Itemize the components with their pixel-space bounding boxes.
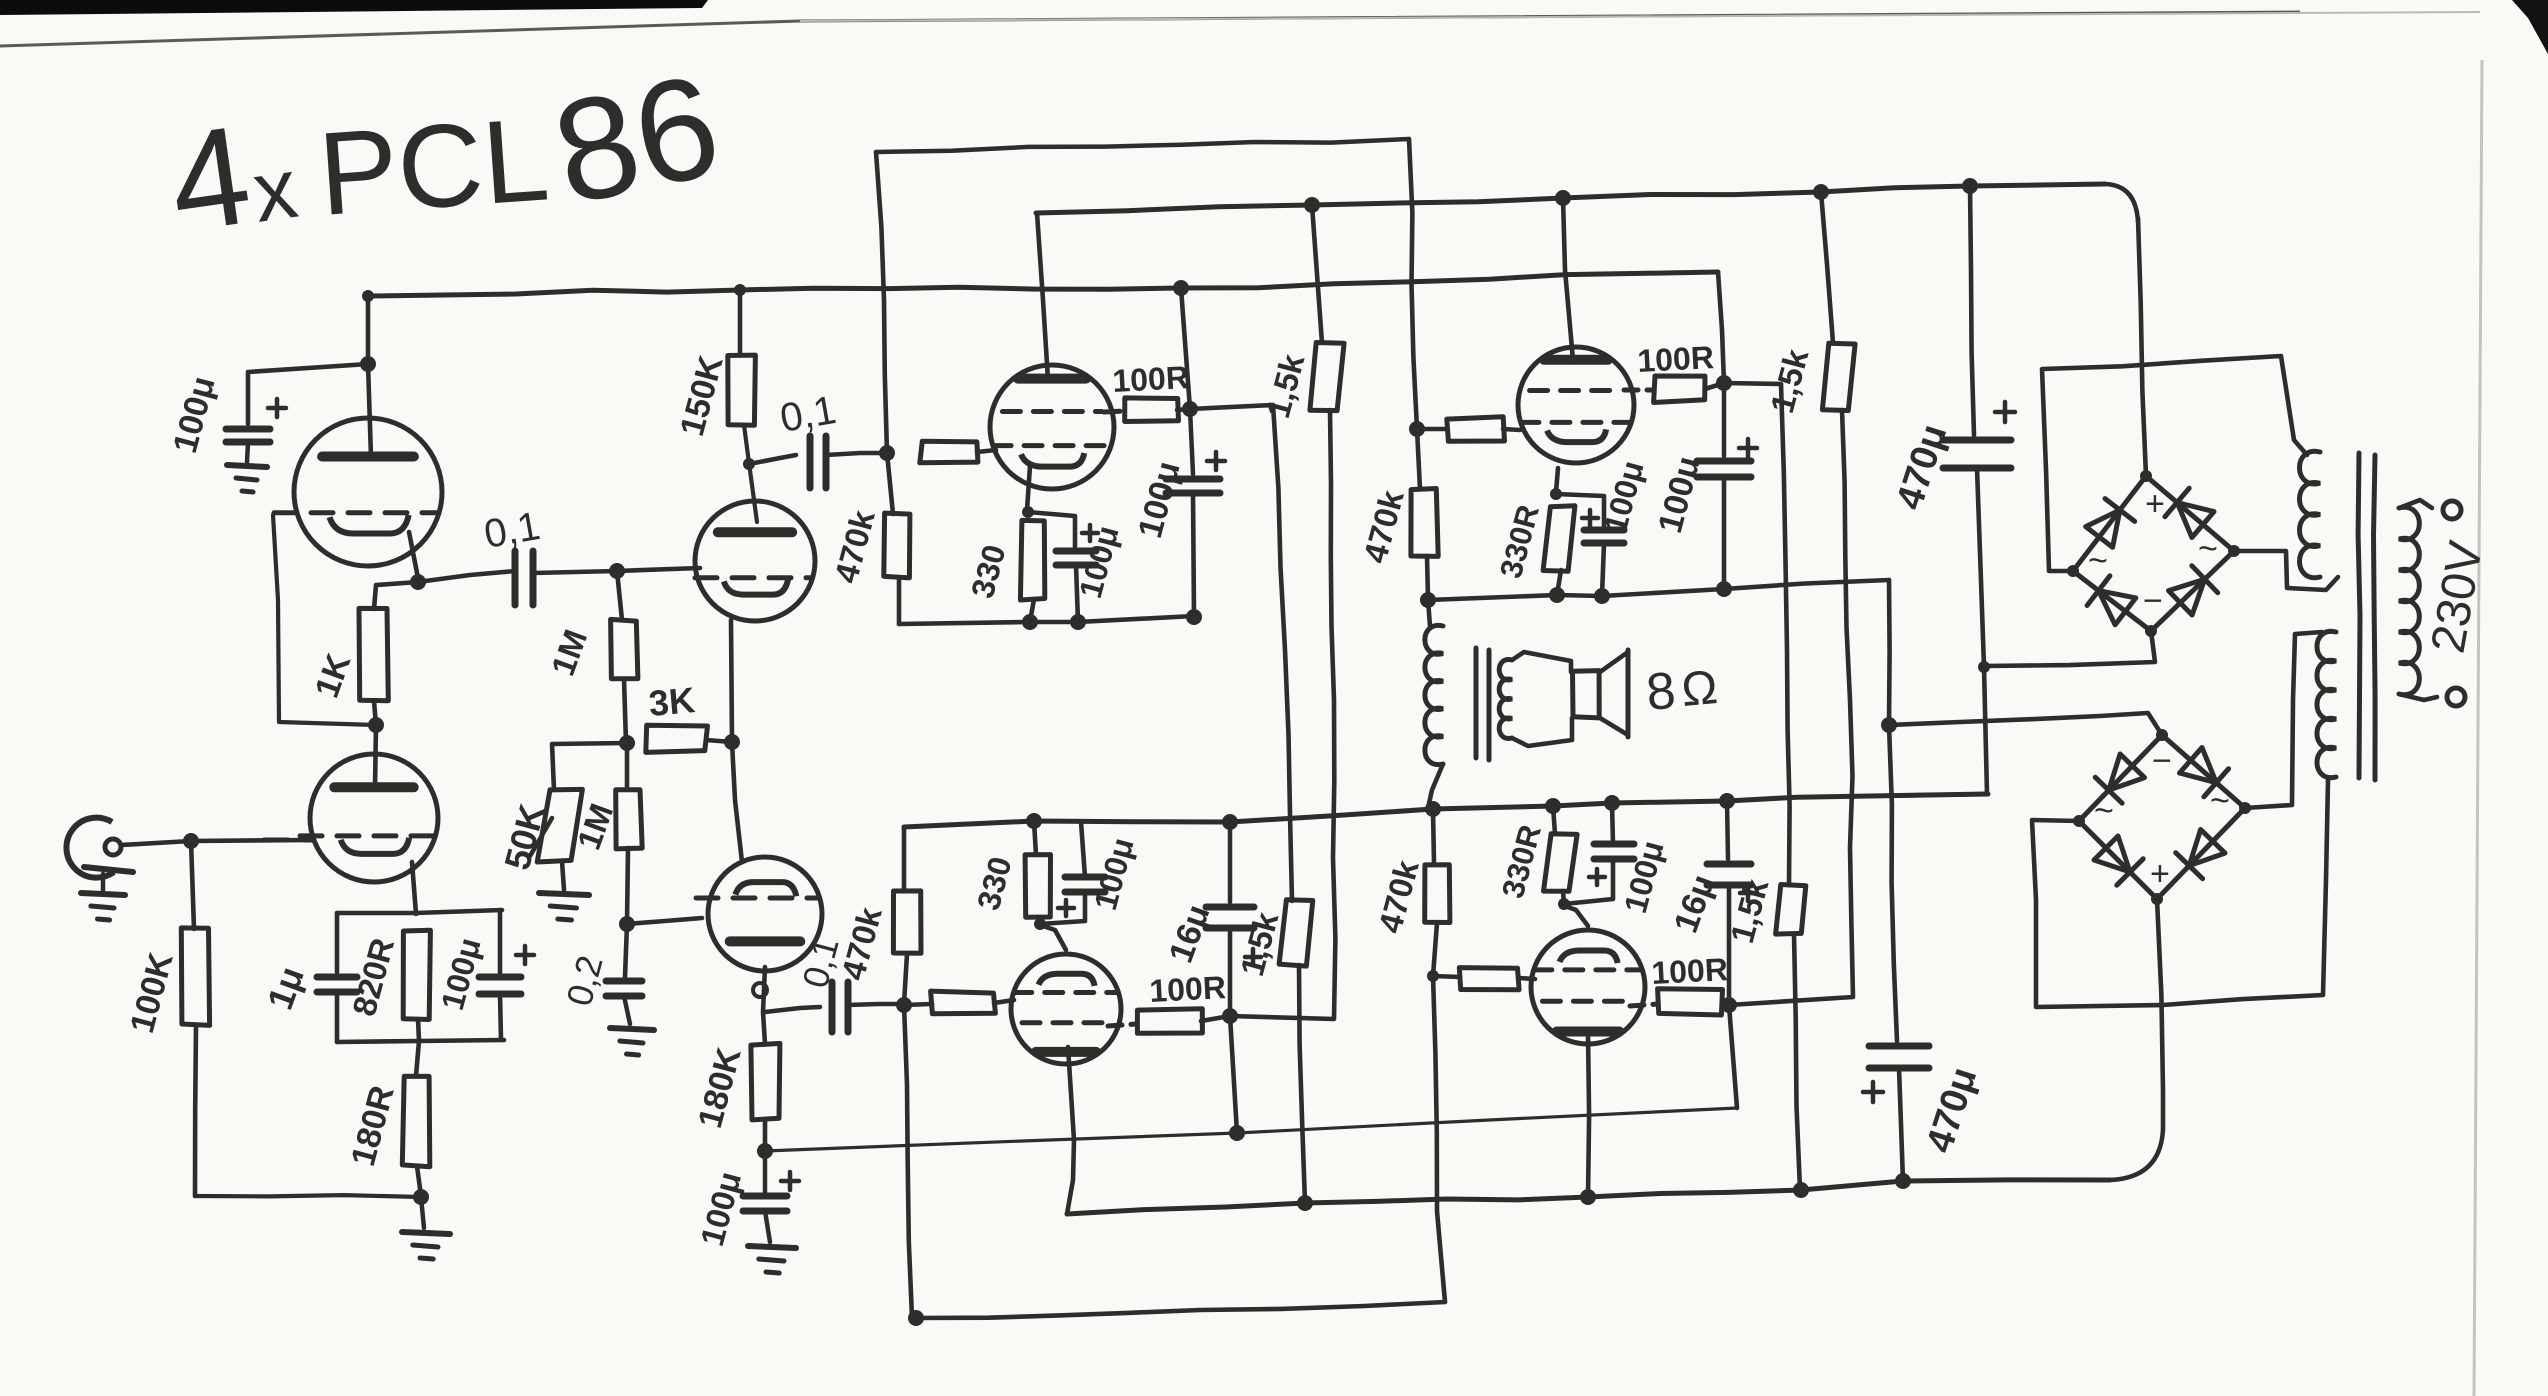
node cell2 rail dots <box>1549 581 1732 604</box>
resistor 1,5k second <box>1821 192 1855 411</box>
capacitor 100u cathode ll <box>1040 877 1105 924</box>
svg-text:100μ: 100μ <box>1597 457 1651 537</box>
resistor 820R <box>403 930 430 1019</box>
node NFB mid <box>1229 1125 1245 1141</box>
label 330R lr <box>1495 821 1548 902</box>
wire speaker bottom <box>1512 718 1572 746</box>
wire lower rail <box>904 794 1988 827</box>
wire 180R bottom <box>417 1166 421 1196</box>
svg-text:100μ: 100μ <box>1087 834 1141 914</box>
wire BR2 left chain <box>2032 780 2328 1007</box>
wire splitter rail bottom <box>904 1005 912 1318</box>
pentode V5 lower-left <box>1011 954 1121 1064</box>
node V3 cathode <box>1022 506 1034 518</box>
wire 470K lr bottom <box>1433 923 1437 976</box>
wire 330 ll bottom <box>1038 917 1040 924</box>
capacitor 100u screen ul <box>1166 409 1225 493</box>
capacitor 100u splitter <box>743 1151 799 1211</box>
wire V6 plate lead <box>1588 1033 1589 1197</box>
speaker 8ohm <box>1573 650 1629 737</box>
wire BR2 right chain <box>2245 632 2322 808</box>
ground splitter cap <box>748 1211 796 1273</box>
svg-text:470μ: 470μ <box>1919 1062 1986 1157</box>
svg-text:330R: 330R <box>1493 501 1546 582</box>
capacitor 16u lower-right <box>1707 801 1756 901</box>
wire 100K to bottom <box>195 1025 196 1196</box>
wire 3K right <box>706 740 732 742</box>
label 470u second <box>1919 1062 1986 1157</box>
title 4xPCL86 <box>160 43 732 261</box>
wire NFB line <box>765 1108 1737 1151</box>
label 100R lower-right <box>1650 951 1728 991</box>
svg-text:1μ: 1μ <box>259 961 312 1015</box>
node grid lr <box>1427 970 1439 982</box>
wire 100u ur to rail <box>1722 477 1727 589</box>
svg-text:PCL: PCL <box>315 93 553 241</box>
wire 470u1 to lower rail <box>1870 667 1987 796</box>
label 1K <box>308 648 359 702</box>
node splitter grid <box>619 916 635 932</box>
resistor 1M upper <box>611 619 638 678</box>
label 330R ur <box>1493 501 1546 582</box>
label 1M upper <box>544 625 594 681</box>
capacitor 100u input stage <box>226 399 286 442</box>
wire screen ll to NFB <box>1230 1016 1237 1133</box>
wire bias box top <box>337 910 502 913</box>
label 470K upper-left <box>827 506 882 587</box>
svg-text:+: + <box>2145 485 2165 523</box>
resistor 100R lower-right <box>1630 989 1729 1015</box>
wire 16u lr down <box>1727 885 1732 1005</box>
node NFB left <box>757 1143 773 1159</box>
label 100u cathode ul <box>1072 522 1126 602</box>
label 8ohm <box>1644 661 1720 722</box>
svg-text:100K: 100K <box>123 948 181 1037</box>
ground 100u input <box>227 442 267 492</box>
resistor 100K <box>181 928 209 1026</box>
svg-text:−: − <box>2152 742 2172 780</box>
node V1a plate top <box>360 290 376 372</box>
node 3K left <box>619 735 635 751</box>
wire upper gnd drop <box>1887 580 1892 725</box>
resistor 330 ll <box>1025 821 1050 917</box>
label 180R <box>344 1082 402 1170</box>
svg-text:Ω: Ω <box>1679 661 1719 717</box>
rectifier bridge BR2 <box>2073 729 2251 905</box>
grid stopper V5 <box>904 991 1014 1014</box>
wire V4 plate lead <box>1563 198 1573 360</box>
node OT1 top <box>1420 592 1436 608</box>
node lower rail B dots <box>1297 1173 1911 1211</box>
wire rail cell1 <box>899 616 1194 624</box>
wire 0,1 to driver grid <box>533 568 700 573</box>
label 820R <box>345 934 401 1020</box>
wire lower Bplus rail <box>1067 1130 2163 1214</box>
transformer OT1 core <box>1476 648 1489 760</box>
label BR1 plus <box>2145 485 2165 523</box>
label 100u cathode ll <box>1087 834 1141 914</box>
wire bias box bottom <box>337 1040 504 1042</box>
label 50K <box>496 800 553 874</box>
triode V1a input upper <box>274 418 442 566</box>
svg-text:4: 4 <box>160 95 259 261</box>
node input junction <box>183 833 199 849</box>
input jack ground <box>81 874 125 920</box>
wire cathode to 1K <box>374 582 418 609</box>
wire 100u screen to rail <box>1193 493 1194 616</box>
resistor 330R ur <box>1543 506 1575 571</box>
label 100u splitter <box>693 1168 748 1250</box>
wire splitter grid <box>627 918 702 924</box>
capacitor 0,1 upper <box>749 436 887 488</box>
transformer T1 HT winding lower <box>2317 631 2336 777</box>
node V1a cathode <box>410 574 426 590</box>
node cell1 rail dots <box>1022 609 1202 630</box>
svg-text:820R: 820R <box>345 934 401 1020</box>
node 3K right <box>724 734 740 750</box>
svg-text:470k: 470k <box>834 903 889 984</box>
label 3K <box>647 679 696 724</box>
resistor 100R upper-right <box>1624 376 1724 403</box>
svg-text:470k: 470k <box>1371 856 1426 937</box>
label BR1 ac right <box>2198 530 2218 568</box>
resistor 470K upper-right <box>1411 429 1438 599</box>
wire BR2 top lead <box>1889 713 2162 735</box>
node 470u1 bridge tap <box>1978 661 1990 673</box>
resistor 1,5k fourth <box>1776 885 1806 935</box>
capacitor 100u cathode ur <box>1556 494 1624 543</box>
wire 100u ur bottom <box>1602 543 1604 596</box>
wire drop to 1,5k fourth <box>1781 384 1790 885</box>
svg-text:16μ: 16μ <box>1667 870 1723 938</box>
wire 230V top terminal <box>2399 500 2461 519</box>
label 1,5k second <box>1763 345 1816 417</box>
wire loop up to 470K lr <box>1433 976 1445 1302</box>
wire OT1 primary top <box>1428 600 1430 626</box>
resistor 330R lr <box>1544 806 1578 891</box>
label 470u first <box>1889 419 1956 514</box>
svg-text:~: ~ <box>2088 542 2108 580</box>
grid stopper V3 <box>920 441 996 463</box>
resistor 180R <box>402 1076 430 1166</box>
label 100u cathode lr <box>1617 837 1671 917</box>
scanner black wedge top-right <box>2512 0 2548 54</box>
wire V2a cathode down <box>731 620 732 742</box>
wire BR1 left chain <box>2042 356 2307 571</box>
wire rail cell2 <box>1428 580 1889 600</box>
wire input to grid <box>121 840 312 845</box>
svg-text:330: 330 <box>970 853 1019 914</box>
svg-text:330R: 330R <box>1495 821 1548 902</box>
triode V2a driver <box>695 501 815 621</box>
triode V1b input lower <box>300 754 438 882</box>
svg-text:330: 330 <box>964 541 1013 602</box>
wire 330R lr bottom <box>1563 891 1564 904</box>
capacitor 0,1 lower <box>765 982 904 1032</box>
ground input stage bottom <box>402 1197 450 1259</box>
ground 50K <box>539 893 589 920</box>
wire 1,5k fourth down <box>1794 934 1800 1190</box>
label 100R lower-left <box>1148 969 1226 1009</box>
label 100u cathode ur <box>1597 457 1651 537</box>
node B+ tap1 <box>1173 280 1189 296</box>
wire 1M to node <box>624 679 626 743</box>
label 0,1 first <box>481 504 543 557</box>
node upper grid right <box>1409 421 1425 437</box>
wire BR2 plus lead <box>2157 899 2163 1130</box>
svg-text:~: ~ <box>2198 530 2218 568</box>
capacitor 16u lower-left <box>1206 822 1261 965</box>
node bottom left loop <box>908 1310 924 1326</box>
label 100u bias <box>434 934 488 1014</box>
capacitor 100u cathode ul <box>1028 512 1098 565</box>
label 330 ul <box>964 541 1013 602</box>
label 230V <box>2422 537 2494 657</box>
wire V5 plate lead <box>1067 1047 1074 1214</box>
node screen ul <box>1182 401 1198 417</box>
svg-text:~: ~ <box>2094 792 2114 830</box>
transformer OT1 primary <box>1425 625 1443 764</box>
resistor 100R lower-left <box>1108 1009 1230 1034</box>
wire 230V bottom terminal <box>2399 688 2465 706</box>
resistor 1,5k third <box>1279 900 1313 966</box>
svg-text:1,5k: 1,5k <box>1259 350 1312 422</box>
node screen ur <box>1716 375 1732 391</box>
node driver grid <box>609 563 625 579</box>
node screen ll <box>1222 1008 1238 1024</box>
pentode V3 upper-left <box>990 365 1114 489</box>
resistor 1M lower <box>616 790 643 849</box>
resistor 1,5k first <box>1310 205 1344 411</box>
wire V3 plate lead <box>1037 213 1048 380</box>
label 100u screen ur <box>1651 452 1708 537</box>
wire bottom ground run <box>195 1195 421 1197</box>
wire 1,5k second down <box>1729 410 1853 1005</box>
node lower rail dots <box>1026 793 1735 830</box>
ground 0,2 <box>610 996 654 1055</box>
wire 1K bottom <box>374 701 376 725</box>
node 1K bottom <box>368 717 384 733</box>
label 16u lower-right <box>1667 870 1723 938</box>
transformer OT1 secondary <box>1499 660 1512 739</box>
wire V3 cathode <box>1027 466 1030 510</box>
wire bias box left <box>335 913 340 972</box>
svg-text:100R: 100R <box>1636 339 1714 379</box>
input jack J1 <box>66 818 133 878</box>
wire V6 cathode up <box>1565 906 1588 926</box>
label BR1 ac left <box>2088 542 2108 580</box>
wire 100u lr top <box>1612 803 1613 844</box>
capacitor 100u cathode bias <box>479 946 534 994</box>
wire 1M lower down <box>627 848 628 924</box>
transformer T1 HT winding upper <box>2299 451 2320 577</box>
svg-text:1,5k: 1,5k <box>1233 908 1286 980</box>
paper right edge shadow <box>2474 60 2482 1396</box>
wire B+ corner down <box>1718 272 1724 383</box>
svg-text:100μ: 100μ <box>1651 452 1708 537</box>
node upper grid left <box>879 445 895 461</box>
label 470K lower-left <box>834 903 889 984</box>
label BR2 plus <box>2150 855 2170 893</box>
svg-text:~: ~ <box>2210 782 2230 820</box>
wire input node to 100K <box>191 841 194 929</box>
svg-text:0,2: 0,2 <box>558 951 611 1010</box>
resistor 470K lower-left <box>893 891 921 953</box>
transformer T1 core <box>2358 453 2375 780</box>
node rail B dots <box>1304 178 1978 213</box>
wire 100u0 tap <box>248 364 368 424</box>
svg-text:230V: 230V <box>2422 537 2494 657</box>
wire 330R ur bottom <box>1557 570 1561 595</box>
wire 820R bottom <box>418 1019 419 1041</box>
wire V1a cathode <box>409 532 418 578</box>
wire loop top <box>876 139 1409 152</box>
label 1M lower <box>570 799 620 855</box>
capacitor 100u cathode lr <box>1564 844 1634 904</box>
svg-text:100μ: 100μ <box>693 1168 748 1250</box>
wire splitter rail <box>902 827 907 890</box>
svg-text:100R: 100R <box>1148 969 1226 1009</box>
paper top edge line <box>0 12 2480 46</box>
resistor 3K <box>646 725 708 752</box>
wire 150K chain <box>738 290 743 355</box>
capacitor 0,2 <box>606 981 642 996</box>
grid stopper V6 <box>1433 968 1535 990</box>
wire OT1 primary bottom <box>1428 764 1443 808</box>
label BR2 ac right <box>2210 782 2230 820</box>
wire rail to 1M lower <box>625 743 630 790</box>
svg-text:86: 86 <box>541 43 732 235</box>
label 100K <box>123 948 181 1037</box>
wire screen rail down <box>1181 288 1190 409</box>
wire V1b cathode <box>412 862 416 914</box>
capacitor 470u first <box>1943 402 2015 468</box>
wire 100u ll top <box>1081 822 1085 877</box>
svg-text:1M: 1M <box>544 625 594 681</box>
rectifier bridge BR1 <box>2067 470 2240 637</box>
node V4 cathode <box>1550 488 1562 500</box>
label 100u screen ul <box>1131 457 1188 542</box>
capacitor 470u second <box>1863 1046 1929 1102</box>
wire 150K to plate <box>744 425 757 522</box>
wire screen stub ur <box>1724 383 1781 384</box>
node V5 cathode <box>1034 918 1046 930</box>
svg-text:1,5k: 1,5k <box>1763 345 1816 417</box>
wire 470u2 chain <box>1889 725 1897 1041</box>
wire 100u ul bottom <box>1076 565 1078 622</box>
wire BR1 top lead <box>2138 218 2146 476</box>
svg-text:100μ: 100μ <box>1131 457 1188 542</box>
wire 330 ul bottom <box>1030 599 1034 622</box>
transformer T1 primary 230V <box>2399 507 2419 694</box>
node ground bottom <box>413 1189 429 1205</box>
label 470K lower-right <box>1371 856 1426 937</box>
wire screen drop to 1,5k third <box>1273 405 1292 901</box>
wire 1,5k first down <box>1230 410 1335 1019</box>
wire B+ rail B <box>1036 184 2138 222</box>
capacitor 1u <box>317 977 357 992</box>
capacitor 100u screen ur <box>1697 383 1757 477</box>
svg-text:100R: 100R <box>1111 359 1189 399</box>
wire screen tap right <box>1190 405 1273 409</box>
wire 180K bottom <box>763 1119 768 1151</box>
capacitor 0,1 first <box>418 551 533 605</box>
label 1,5k first <box>1259 350 1312 422</box>
pentode V4 upper-right <box>1518 347 1634 463</box>
node V6 cathode <box>1558 898 1570 910</box>
label 470K upper-right <box>1356 486 1411 567</box>
wire V2b plate down <box>753 967 767 1044</box>
svg-text:150K: 150K <box>673 351 731 440</box>
label 0,1 upper <box>777 388 839 441</box>
svg-text:0,1: 0,1 <box>777 388 839 441</box>
grid stopper V4 <box>1417 417 1520 442</box>
wire V1b plate lead <box>375 725 376 787</box>
wire to 0,2 <box>625 924 627 977</box>
node 150K top <box>734 284 746 296</box>
svg-text:8: 8 <box>1644 662 1678 722</box>
wire V1a grid down <box>273 515 376 725</box>
wire loop right <box>1409 139 1417 429</box>
wire V4 cathode <box>1556 468 1558 492</box>
wire node to 50K corner <box>552 743 627 790</box>
wire 1,5k third down <box>1299 965 1305 1203</box>
svg-text:180R: 180R <box>344 1082 402 1170</box>
label 1u <box>259 961 312 1015</box>
wire speaker top <box>1512 652 1571 672</box>
wire to 180R <box>416 1041 419 1076</box>
resistor 100R upper-left <box>1104 398 1190 422</box>
label 100R upper-right <box>1636 339 1714 379</box>
resistor 330 ul <box>1020 520 1044 600</box>
wire 16u ll down <box>1228 928 1233 1016</box>
wire V1b grid ext <box>264 838 312 843</box>
label 1,5k fourth <box>1723 875 1776 947</box>
resistor 470K lower-right <box>1425 809 1450 923</box>
wire screen lr to NFB corner <box>1729 1005 1737 1108</box>
potentiometer 50K <box>530 789 582 862</box>
wire loop left <box>876 152 887 453</box>
wire 50K to ground <box>562 861 564 890</box>
node 150K bottom <box>743 458 755 470</box>
triode V2b splitter <box>696 857 822 971</box>
label 330 ll <box>970 853 1019 914</box>
label 16u lower-left <box>1162 900 1218 968</box>
svg-text:180K: 180K <box>691 1043 749 1132</box>
svg-text:−: − <box>2143 582 2163 620</box>
wire V1a plate lead <box>368 296 371 457</box>
svg-text:100R: 100R <box>1650 951 1728 991</box>
wire V2b cathode up <box>732 742 742 862</box>
wire BR1 right chain <box>2234 551 2338 590</box>
wire bottom loop <box>916 1302 1445 1318</box>
wire V5 cathode up <box>1040 925 1066 950</box>
resistor 470K upper-left <box>884 453 910 624</box>
wire 470K ll to cap node <box>904 954 907 1004</box>
wire BR1 minus lead <box>1984 631 2155 666</box>
label 0,1 lower <box>794 933 847 992</box>
node 0,1 lower right <box>896 997 912 1013</box>
svg-text:470k: 470k <box>827 506 882 587</box>
resistor 180K <box>751 1043 780 1120</box>
pentode V6 lower-right <box>1531 930 1645 1044</box>
svg-text:100μ: 100μ <box>1617 837 1671 917</box>
svg-text:+: + <box>2150 855 2170 893</box>
svg-text:1K: 1K <box>308 648 359 702</box>
label BR2 minus <box>2152 742 2172 780</box>
label 150K <box>673 351 731 440</box>
svg-text:3K: 3K <box>647 679 696 724</box>
